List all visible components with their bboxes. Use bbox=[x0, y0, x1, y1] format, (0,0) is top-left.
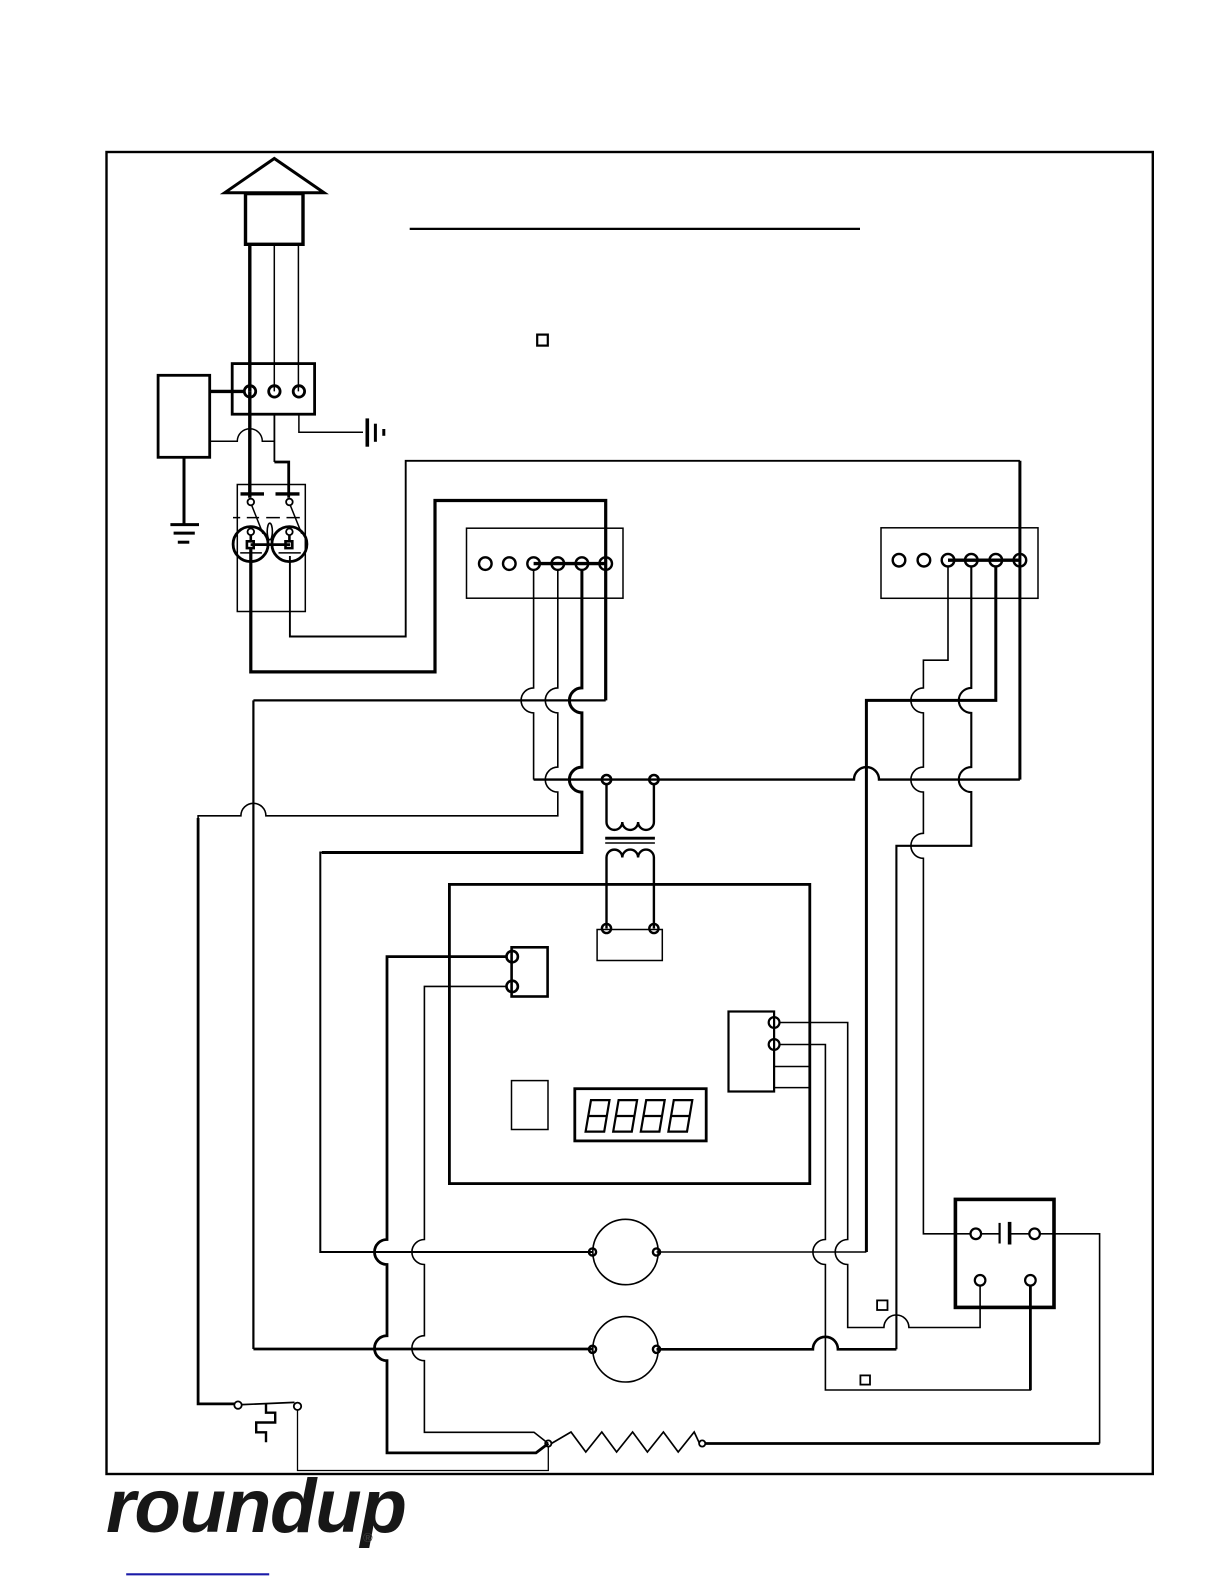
display DS1 bbox=[575, 1089, 706, 1141]
wire CN3-1 right, down, to relay coil pin BL bbox=[780, 1023, 981, 1328]
R1 right terminal bbox=[699, 1440, 705, 1446]
terminal block TB3 (right) bbox=[881, 528, 1038, 599]
wire CN2-1 left and down to heater node (bold) bbox=[375, 957, 549, 1453]
chassis ground GND2 bbox=[367, 418, 384, 446]
TB3 terminal 1 bbox=[893, 554, 906, 567]
SW1 lamp 2 bbox=[272, 527, 307, 562]
TB2 terminal 5 bbox=[576, 557, 589, 570]
wire TB2-4 down, hops, left line B to door switch bbox=[198, 570, 558, 1404]
transformer T1 primary terminal 1 bbox=[602, 775, 611, 784]
wire filter to TB1-1 bbox=[210, 390, 245, 393]
M1 right wire to vertical bbox=[657, 1251, 867, 1253]
S2 actuator bbox=[256, 1404, 275, 1442]
power plug P1 bbox=[225, 159, 325, 245]
page border frame bbox=[107, 152, 1153, 1474]
TB2 terminal 6 bbox=[599, 557, 612, 570]
board connector CN2 bbox=[512, 947, 548, 996]
T1 primary winding bbox=[607, 784, 654, 830]
TB2 jumper bus bbox=[534, 562, 606, 565]
wire S2-2 down right up to heater node bbox=[298, 1410, 549, 1471]
wire N plug to block bbox=[273, 244, 275, 391]
wire TB2-5 down, hops, left, down to fan motor M1 line bbox=[320, 570, 592, 1252]
blue link underline bbox=[126, 1573, 269, 1575]
wire TB3-5 down to H1 left then down to fan motor M1 return bbox=[866, 567, 995, 1252]
K1 coil pin BR bbox=[1025, 1275, 1036, 1286]
T1 secondary winding bbox=[607, 850, 654, 858]
wire CN2-2 left and down to heater node (thin) bbox=[412, 986, 548, 1443]
svg-text:®: ® bbox=[363, 1530, 373, 1545]
TB2 terminal 2 bbox=[503, 557, 516, 570]
heater resistor R1 bbox=[551, 1432, 699, 1452]
small square marker (low) bbox=[860, 1375, 870, 1384]
terminal block TB1 bbox=[232, 364, 314, 415]
blower motor M2 bbox=[593, 1317, 658, 1382]
SW1 pole2 contact bbox=[286, 499, 293, 506]
board connector CN3 bbox=[729, 1012, 775, 1092]
board relay box bbox=[512, 1081, 549, 1130]
S2 blade bbox=[242, 1402, 295, 1404]
wire cap R out to right and down to heater return bbox=[1040, 1234, 1100, 1444]
TB3 jumper bus bbox=[948, 559, 1020, 562]
wire R1 right bold to relay cap branch bbox=[705, 1442, 1099, 1445]
SW1 lamp link bar bbox=[251, 543, 291, 546]
TB3 terminal 2 bbox=[918, 554, 931, 567]
transformer T1 primary terminal 2 bbox=[649, 775, 658, 784]
secondary connector CN1 bbox=[597, 930, 662, 961]
wire CN3-2 right, down, around to relay coil pin BR bbox=[780, 1045, 1031, 1391]
SW1 pole2 contact bar bbox=[276, 492, 300, 495]
wire L1 from SW1 pole1 down-right-up-right-down (to node A) bbox=[251, 501, 606, 701]
wire filter to earth bbox=[183, 457, 186, 524]
SW1 pole1 blade bbox=[252, 505, 263, 533]
earth ground GND1 bbox=[170, 525, 199, 543]
wire TB2-3 down, hop line A, to XFMR primary line bbox=[521, 570, 534, 780]
wire N from SW1 pole2 down-right-up-right (to TB3 circle6) bbox=[290, 461, 1020, 637]
M2 left feed wire bbox=[253, 1348, 592, 1351]
TB3 terminal 5 bbox=[990, 554, 1003, 567]
title rule line bbox=[410, 228, 860, 230]
line A: node A horizontal to V1 bbox=[253, 699, 605, 701]
T1 core bbox=[605, 837, 655, 840]
rocker switch SW1 box bbox=[237, 485, 305, 612]
heater resistor R1 left terminal bbox=[545, 1440, 551, 1446]
capacitor C1 bbox=[981, 1233, 1000, 1235]
SW1 pole1 contact bbox=[248, 499, 255, 506]
EMI filter FL1 bbox=[158, 375, 210, 457]
terminal block TB2 (left) bbox=[467, 528, 624, 598]
K1 cap terminal R bbox=[1029, 1229, 1040, 1240]
relay / contactor K1 bbox=[955, 1199, 1054, 1307]
wire filter lower with hop over L1 bbox=[210, 429, 275, 442]
small square marker (top) bbox=[537, 335, 548, 346]
TB2 terminal 3 bbox=[527, 557, 540, 570]
TB1 terminal 1 bbox=[244, 386, 255, 397]
TB1 terminal 3 bbox=[293, 386, 304, 397]
wire L1 into switch pole 1 bbox=[248, 391, 251, 497]
DS1 digit 1 bbox=[586, 1100, 693, 1132]
wire N down-jog into switch pole 2 bbox=[273, 414, 275, 462]
small square marker (mid) bbox=[877, 1300, 887, 1310]
SW1 actuator oval bbox=[267, 523, 272, 540]
wire TB3-3 jog left down to relay capacitor bbox=[911, 567, 971, 1234]
SW1 lamp 1 bbox=[233, 527, 268, 562]
door interlock switch S2 terminal 1 bbox=[234, 1401, 241, 1408]
door switch feed bold segment bbox=[198, 818, 234, 1404]
SW1 linkage dashed bbox=[233, 517, 300, 519]
wire L1 plug to block bbox=[248, 244, 251, 391]
TB2 terminal 4 bbox=[552, 557, 565, 570]
roundup logo bbox=[106, 1464, 406, 1549]
TB3 terminal 3 bbox=[942, 554, 955, 567]
wire TB3-6 vertical through block down to primary line bbox=[1018, 461, 1021, 780]
bold part TB2-5 bbox=[322, 570, 582, 853]
wire V1 down to blower motor feed bbox=[252, 700, 254, 1349]
K1 cap terminal L bbox=[971, 1229, 982, 1240]
TB3 terminal 6 bbox=[1014, 554, 1027, 567]
fan motor M1 bbox=[593, 1219, 658, 1284]
SW1 pole1 contact bar bbox=[241, 492, 265, 495]
control board PCB1 bbox=[449, 884, 809, 1183]
T1 secondary leads bbox=[605, 858, 607, 929]
SW1 pole2 blade bbox=[290, 505, 301, 533]
XFMR primary feed line (with hop at 866.4) bbox=[534, 767, 1020, 780]
S2 terminal 2 bbox=[294, 1403, 301, 1410]
TB1 terminal 2 bbox=[269, 386, 280, 397]
M2 right wire with hop, up to TB3-4 vertical bbox=[657, 1337, 897, 1350]
TB3 terminal 4 bbox=[965, 554, 978, 567]
K1 coil pin BL bbox=[975, 1275, 986, 1286]
svg-text:roundup: roundup bbox=[106, 1464, 406, 1549]
TB2 terminal 1 bbox=[479, 557, 492, 570]
wire TB3-4 down to H3 left to vertical bbox=[896, 567, 971, 1350]
wire TB1-3 to chassis ground bbox=[299, 414, 363, 432]
wire G plug to block bbox=[297, 244, 299, 391]
bold segment relay BR pin bbox=[1029, 1286, 1032, 1390]
